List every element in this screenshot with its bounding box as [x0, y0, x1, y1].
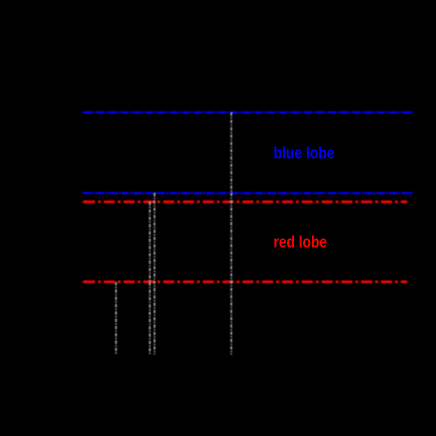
gray vertical marker x=154.5 (from blue lower line to axis) — [154, 193, 156, 355]
blue lobe upper velocity line (dashed blue hline y=112) — [82, 111, 414, 114]
red lobe lower velocity line (dash-dot red hline y=281.5) — [82, 280, 409, 284]
red lobe upper velocity line (dash-dot red hline y=201.5) — [82, 200, 409, 204]
gray vertical marker x=150 (from red upper line to axis) — [149, 202, 151, 355]
blue lobe lower velocity line (dashed blue hline y=193) — [82, 192, 414, 195]
gray vertical marker x=231 (from blue upper line to axis) — [230, 113, 232, 355]
svg-text:blue lobe: blue lobe — [274, 144, 335, 163]
svg-text:red lobe: red lobe — [274, 232, 328, 251]
gray vertical marker x=116 (from red lower line to axis) — [115, 282, 117, 355]
